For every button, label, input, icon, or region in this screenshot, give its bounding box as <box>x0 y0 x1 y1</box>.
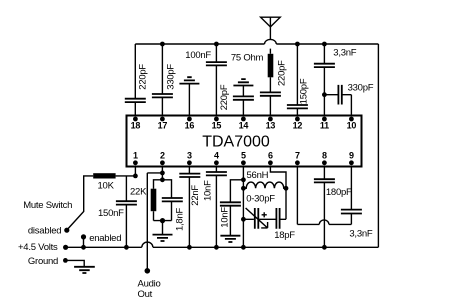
svg-text:14: 14 <box>239 121 249 131</box>
svg-text:12: 12 <box>293 121 303 131</box>
svg-text:+4.5 Volts: +4.5 Volts <box>18 242 58 253</box>
svg-text:18: 18 <box>131 121 141 131</box>
svg-text:220pF: 220pF <box>219 84 230 110</box>
svg-text:Audio: Audio <box>138 279 161 290</box>
svg-text:5: 5 <box>241 151 246 161</box>
svg-text:56nH: 56nH <box>247 170 269 181</box>
svg-text:22K: 22K <box>130 187 147 198</box>
svg-text:220pF: 220pF <box>138 64 149 90</box>
svg-text:15: 15 <box>212 121 222 131</box>
svg-text:3,3nF: 3,3nF <box>349 228 372 239</box>
svg-text:75 Ohm: 75 Ohm <box>231 53 264 64</box>
svg-text:0-30pF: 0-30pF <box>246 193 275 204</box>
svg-text:1: 1 <box>133 151 138 161</box>
svg-text:TDA7000: TDA7000 <box>202 134 270 151</box>
svg-text:13: 13 <box>266 121 276 131</box>
svg-text:10: 10 <box>347 121 357 131</box>
svg-text:10nF: 10nF <box>219 207 230 228</box>
svg-text:3: 3 <box>187 151 192 161</box>
svg-text:7: 7 <box>295 151 300 161</box>
svg-text:220pF: 220pF <box>276 60 287 86</box>
svg-text:Mute Switch: Mute Switch <box>23 200 72 211</box>
svg-text:11: 11 <box>320 121 329 131</box>
svg-text:Out: Out <box>138 289 153 300</box>
svg-text:10K: 10K <box>98 180 115 191</box>
svg-text:100nF: 100nF <box>185 50 211 61</box>
svg-text:4: 4 <box>214 151 219 161</box>
svg-text:enabled: enabled <box>89 233 121 244</box>
svg-text:180pF: 180pF <box>326 187 352 198</box>
svg-text:2: 2 <box>160 151 165 161</box>
svg-text:6: 6 <box>268 151 273 161</box>
svg-text:22nF: 22nF <box>190 185 201 206</box>
svg-text:330pF: 330pF <box>348 82 374 93</box>
svg-text:3,3nF: 3,3nF <box>333 47 356 58</box>
svg-text:10nF: 10nF <box>203 180 214 201</box>
svg-text:150nF: 150nF <box>98 208 124 219</box>
svg-text:disabled: disabled <box>28 226 61 237</box>
svg-text:16: 16 <box>185 121 195 131</box>
svg-text:9: 9 <box>349 151 354 161</box>
svg-text:150pF: 150pF <box>299 78 310 104</box>
svg-text:8: 8 <box>322 151 327 161</box>
svg-text:1,8nF: 1,8nF <box>174 208 185 231</box>
svg-text:330pF: 330pF <box>166 64 177 90</box>
svg-text:Ground: Ground <box>28 256 58 267</box>
svg-text:17: 17 <box>158 121 168 131</box>
svg-text:18pF: 18pF <box>274 230 295 241</box>
